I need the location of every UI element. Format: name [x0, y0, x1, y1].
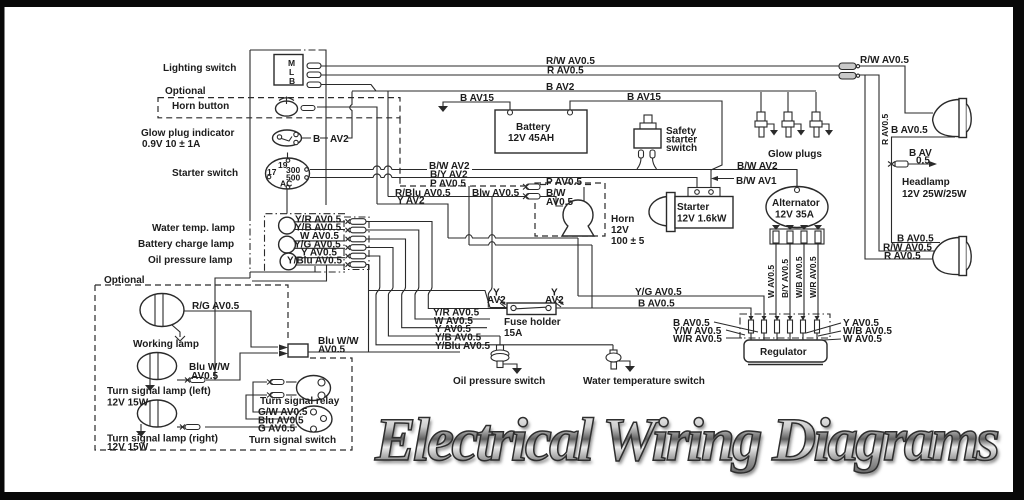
svg-text:B/Y AV0.5: B/Y AV0.5	[780, 259, 790, 298]
svg-text:Lighting switch: Lighting switch	[163, 63, 236, 74]
svg-text:0.5: 0.5	[916, 156, 930, 167]
svg-text:B AV0.5: B AV0.5	[891, 125, 928, 136]
svg-text:Optional: Optional	[104, 275, 145, 286]
svg-text:Blw AV0.5: Blw AV0.5	[472, 188, 520, 199]
svg-text:Turn signal lamp (left): Turn signal lamp (left)	[107, 386, 211, 397]
svg-text:12V 35A: 12V 35A	[775, 210, 814, 221]
svg-text:12V 15W: 12V 15W	[107, 398, 149, 409]
svg-text:B/W AV1: B/W AV1	[736, 176, 777, 187]
svg-text:W AV0.5: W AV0.5	[766, 265, 776, 298]
svg-text:12V 15W: 12V 15W	[107, 442, 149, 453]
svg-text:Optional: Optional	[165, 86, 206, 97]
svg-text:W/R AV0.5: W/R AV0.5	[673, 334, 722, 345]
svg-text:Y/G AV0.5: Y/G AV0.5	[635, 287, 682, 298]
svg-text:12V 1.6kW: 12V 1.6kW	[677, 214, 727, 225]
svg-text:AV0.5: AV0.5	[191, 371, 218, 382]
svg-text:W/B AV0.5: W/B AV0.5	[794, 256, 804, 298]
svg-text:W/R AV0.5: W/R AV0.5	[808, 256, 818, 298]
svg-text:Water temperature switch: Water temperature switch	[583, 376, 705, 387]
svg-text:AV0.5: AV0.5	[318, 345, 345, 356]
svg-text:100 ± 5: 100 ± 5	[611, 236, 645, 247]
svg-text:R/W AV0.5: R/W AV0.5	[860, 55, 909, 66]
svg-text:R AV0.5: R AV0.5	[547, 66, 584, 77]
svg-text:Glow plugs: Glow plugs	[768, 149, 822, 160]
svg-text:Y/Blu AV0.5: Y/Blu AV0.5	[435, 341, 490, 352]
svg-text:Oil pressure switch: Oil pressure switch	[453, 376, 545, 387]
svg-text:Turn signal switch: Turn signal switch	[249, 435, 336, 446]
svg-text:0.9V 10 ± 1A: 0.9V 10 ± 1A	[142, 139, 200, 150]
svg-text:B AV2: B AV2	[546, 82, 575, 93]
svg-text:switch: switch	[666, 143, 697, 154]
svg-text:R/G AV0.5: R/G AV0.5	[192, 301, 240, 312]
svg-text:B: B	[289, 76, 295, 86]
svg-text:Working lamp: Working lamp	[133, 339, 199, 350]
svg-text:AV2: AV2	[330, 134, 349, 145]
svg-text:Y AV2: Y AV2	[397, 195, 425, 206]
svg-text:Electrical Wiring Diagrams: Electrical Wiring Diagrams	[374, 407, 1000, 474]
svg-text:Headlamp: Headlamp	[902, 177, 950, 188]
svg-text:AV2: AV2	[545, 295, 564, 306]
svg-text:12V 25W/25W: 12V 25W/25W	[902, 189, 967, 200]
svg-text:B AV15: B AV15	[627, 92, 661, 103]
svg-text:AC: AC	[280, 179, 292, 189]
svg-text:Glow plug indicator: Glow plug indicator	[141, 128, 234, 139]
svg-text:Horn button: Horn button	[172, 101, 229, 112]
svg-text:AV2: AV2	[487, 295, 506, 306]
svg-text:Fuse holder: Fuse holder	[504, 317, 561, 328]
svg-text:17: 17	[267, 167, 277, 177]
svg-text:Water temp. lamp: Water temp. lamp	[152, 223, 235, 234]
svg-text:B: B	[313, 134, 320, 145]
svg-text:AV0.5: AV0.5	[546, 197, 573, 208]
svg-text:Starter switch: Starter switch	[172, 168, 238, 179]
svg-text:Battery charge lamp: Battery charge lamp	[138, 239, 234, 250]
svg-text:P AV0.5: P AV0.5	[546, 177, 582, 188]
svg-text:G AV0.5: G AV0.5	[258, 424, 296, 435]
svg-text:12V 45AH: 12V 45AH	[508, 133, 554, 144]
svg-text:Oil pressure lamp: Oil pressure lamp	[148, 255, 232, 266]
svg-text:Y/Blu AV0.5: Y/Blu AV0.5	[287, 256, 342, 267]
svg-text:Regulator: Regulator	[760, 347, 807, 358]
svg-text:R AV0.5: R AV0.5	[884, 251, 921, 262]
svg-text:B AV15: B AV15	[460, 93, 494, 104]
svg-text:Alternator: Alternator	[772, 198, 820, 209]
svg-text:B AV0.5: B AV0.5	[638, 299, 675, 310]
svg-text:Battery: Battery	[516, 122, 551, 133]
svg-text:Turn signal relay: Turn signal relay	[260, 396, 340, 407]
svg-text:R AV0.5: R AV0.5	[880, 114, 890, 145]
svg-text:15A: 15A	[504, 328, 522, 339]
svg-text:Horn: Horn	[611, 214, 634, 225]
svg-text:B/W AV2: B/W AV2	[737, 161, 778, 172]
svg-text:12V: 12V	[611, 225, 629, 236]
svg-text:Starter: Starter	[677, 202, 709, 213]
svg-text:W AV0.5: W AV0.5	[843, 334, 882, 345]
